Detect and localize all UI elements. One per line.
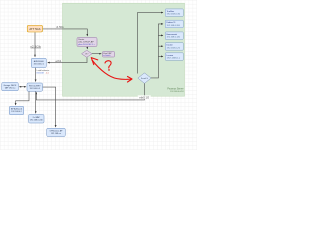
wire box B left to box A (both arrows) (19, 86, 26, 89)
svg-text:Docker: Docker (167, 45, 174, 47)
blue box R5 Lenovo (165, 53, 183, 61)
blue box E OPNsense (47, 128, 66, 136)
purple box2 DMZ (103, 52, 115, 58)
svg-text:192.168: 192.168 (36, 73, 44, 75)
red annotation arrowhead right (128, 77, 133, 83)
wire router box1 down to switch box B (34, 68, 37, 82)
svg-text:192.168.0.25: 192.168.0.25 (167, 47, 181, 49)
svg-text:192.168.0.200: 192.168.0.200 (167, 25, 181, 27)
red annotation curve (92, 60, 132, 79)
orange box ISP modem (27, 25, 42, 32)
blue box A guest AP (2, 83, 19, 91)
wire box B right elbow down to box E (43, 87, 56, 127)
svg-text:TrueNas: TrueNas (167, 11, 175, 13)
svg-text:Garage DECK: Garage DECK (4, 85, 17, 87)
purple diamond VLAN decision (82, 50, 93, 57)
blue box C AdGuard (9, 106, 24, 115)
wire ellipse bottom long elbow back to box B (36, 83, 144, 100)
blue box R4 Docker (165, 43, 183, 51)
svg-text:192.168.0.240: 192.168.0.240 (30, 119, 44, 121)
wire orange ISP to purple Proxmox (elbow) (43, 29, 88, 36)
blue box R3 Homeassistant (165, 32, 183, 40)
svg-text:192.168.0.2: 192.168.0.2 (11, 111, 22, 113)
blue box B switch (27, 83, 43, 91)
svg-text:192.168.2.1: 192.168.2.1 (33, 64, 44, 66)
wire bus branch to box R3 (158, 34, 163, 37)
blue box R2 Debian (165, 20, 183, 28)
svg-text:Lenovo: Lenovo (167, 55, 174, 57)
svg-text:192.168.x.x: 192.168.x.x (51, 133, 61, 135)
svg-text:192.168.0.x: 192.168.0.x (167, 58, 181, 60)
wire box B bottom to box D (34, 91, 37, 113)
wire bus branch to box R4 (158, 45, 163, 48)
svg-text:192.168.0.30: 192.168.0.30 (167, 14, 181, 16)
green container LAN zone (63, 3, 185, 96)
svg-text:plus 10.0.30.1 +: plus 10.0.30.1 + (78, 44, 95, 46)
svg-text:192.168.0.120: 192.168.0.120 (167, 37, 181, 39)
wire box B bottom elbow to box C (16, 91, 29, 105)
svg-text:Load balancer: Load balancer (37, 70, 50, 72)
svg-text:VL?: VL? (85, 54, 88, 56)
wire diamond bottom to router box1 (elbow) (48, 57, 87, 62)
wire ellipse top elbow to box R1 (138, 13, 164, 74)
wire ellipse right to bus and box R2 (150, 24, 163, 78)
wire purple box to diamond (86, 47, 89, 49)
blue box R1 TrueNAS (165, 9, 183, 17)
blue diamond bridge node (138, 73, 151, 84)
wire orange ISP to router (vertical) (34, 32, 37, 57)
svg-text:ATT 5Gb: ATT 5Gb (29, 28, 41, 31)
svg-text:HG DD-WRT: HG DD-WRT (29, 85, 41, 87)
svg-text:192.168.0.0/24: 192.168.0.0/24 (170, 91, 184, 93)
wire label eth0 (138, 95, 151, 99)
purple box Proxmox host U1 (77, 38, 97, 47)
blue box1 main router (31, 58, 46, 67)
wire diamond to purple box2 (92, 52, 101, 55)
svg-text:192.168.0.5: 192.168.0.5 (29, 88, 40, 90)
red annotation arrowhead upper-left (91, 58, 98, 65)
blue box D WAP (29, 115, 45, 124)
svg-text:Debian 11: Debian 11 (167, 22, 177, 24)
svg-text:Zima DMZ: Zima DMZ (103, 53, 112, 55)
red annotation question mark (105, 61, 111, 68)
wire bus branch to box R5 (158, 55, 163, 58)
